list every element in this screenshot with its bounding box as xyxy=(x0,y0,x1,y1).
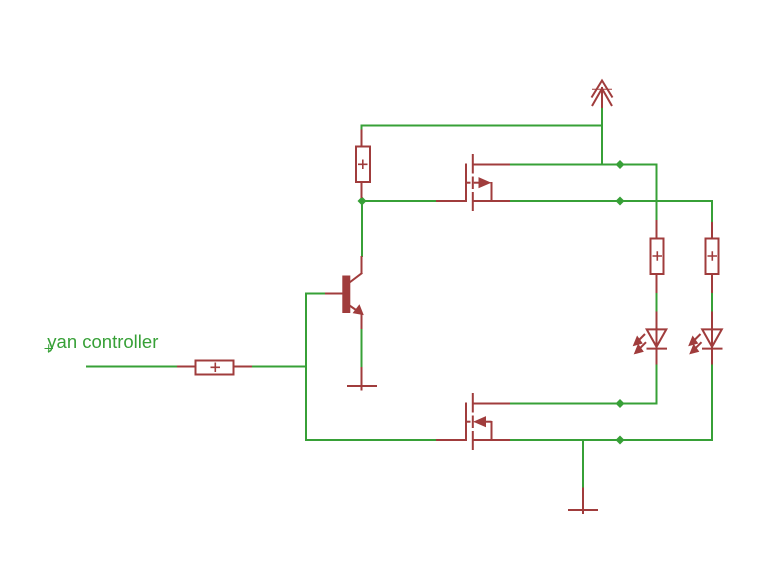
wire right column B down to R4 xyxy=(711,200,713,223)
node D junction dot xyxy=(616,399,625,408)
svg-text:yan controller: yan controller xyxy=(47,331,158,352)
wire node A to M1 gate xyxy=(361,200,437,202)
resistor R1 xyxy=(356,130,370,199)
wire ground drop xyxy=(582,440,584,488)
node E junction dot xyxy=(616,436,625,445)
wire right column A down to R3 xyxy=(656,164,658,222)
node B junction dot xyxy=(616,160,625,169)
wire left vertical bus xyxy=(305,293,307,442)
wire M2 drain to LED1 column xyxy=(509,403,658,405)
wire VDD vertical drop xyxy=(601,107,603,166)
wire left bus to M2 gate xyxy=(305,439,437,441)
wire Q1 emitter to ground xyxy=(361,329,363,369)
wire Q1 base horizontal xyxy=(305,293,326,295)
node origin cross xyxy=(45,344,54,353)
MOSFET M2 xyxy=(436,393,510,450)
wire node A down to Q1 collector xyxy=(361,201,363,257)
MOSFET M1 xyxy=(436,154,510,211)
wire R2 to left bus xyxy=(251,366,307,368)
wire input from yan controller to R2 xyxy=(86,366,178,368)
wire LED1 bottom down to drain rail xyxy=(656,364,658,405)
ground GND2 xyxy=(568,488,598,515)
resistor R4 xyxy=(706,222,719,293)
node C junction dot xyxy=(616,197,625,206)
ground GND1 xyxy=(347,367,377,391)
resistor R3 xyxy=(651,220,664,293)
wire R1 top corner stub xyxy=(361,125,363,132)
resistor R2 xyxy=(177,361,252,375)
LED D1 xyxy=(634,312,668,365)
wire M2 source rail to LED2 column xyxy=(509,439,713,441)
power VDD symbol xyxy=(592,81,613,109)
transistor Q1 xyxy=(325,256,363,329)
wire top rail from R1 top to VDD drop xyxy=(361,125,603,127)
wire M1 drain to right column A xyxy=(509,164,658,166)
LED D2 xyxy=(689,312,723,365)
wire LED2 bottom down to source rail xyxy=(711,364,713,442)
wire M1 source rail to right column B xyxy=(509,200,713,202)
node A junction dot xyxy=(358,197,367,206)
wire R4 bottom to LED2 top xyxy=(711,292,713,313)
wire R3 bottom to LED1 top xyxy=(656,292,658,313)
